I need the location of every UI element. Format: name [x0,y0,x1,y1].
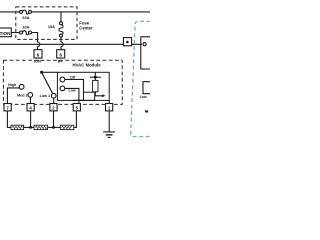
node wiper junction [40,71,43,74]
svg-text:High: High [8,83,17,87]
text fragment at edge [145,110,148,112]
node junction bus/pin4 [29,126,32,129]
wire main feed to relay connector [0,43,124,45]
blower resistor R3 [60,125,74,129]
wire battery feed top [0,11,20,13]
connector pin 6 B+ [57,50,65,58]
wire ignition to fuse F2 [11,32,19,34]
ignition switch box [0,28,11,37]
svg-text:Low: Low [140,95,147,99]
connector pin 5 [73,104,80,111]
fuse box (Fuse Center, dashed) [16,7,77,40]
switch wiper arm [42,73,53,94]
wire pin 2 to bus [53,111,55,128]
wire R3 to pin 5 [74,111,77,128]
arrow relay arm [102,94,105,97]
wire coil to arm arrow [95,92,102,96]
wire Low1 contact to pin 2 [53,98,55,104]
component box B2 (cut at edge) [143,82,151,94]
wire Off contact to motor box [65,79,84,92]
wire junction to relay box [42,71,58,73]
svg-text:Low: Low [69,89,76,93]
svg-text:IGN: IGN [34,60,41,64]
wire pin 7 to resistor bus [7,111,11,128]
motor box [73,92,95,100]
svg-text:Center: Center [79,26,93,31]
svg-text:Med 2: Med 2 [17,94,27,98]
wire pin 1 to ground [108,111,110,132]
wire top feed to right edge [32,11,151,13]
wire relay to pin 1 [108,100,110,103]
connector pin 2 [50,104,57,111]
wire High contact to pin 7 [7,88,19,104]
svg-text:15A: 15A [48,24,55,29]
terminal circle [143,43,146,46]
switch contact High [19,84,24,89]
fuse F2 10A [20,31,32,35]
right module box (blue dashed) [131,21,151,136]
svg-text:HVAC Module: HVAC Module [73,62,102,67]
node junction bus/pin2 [52,126,55,129]
HVAC module box (dashed) [3,60,122,104]
label Fuse Center [79,20,93,30]
svg-text:B+: B+ [58,60,63,64]
blower relay box [57,72,109,100]
component box B1 (cut at edge) [141,37,151,69]
blower resistor R2 [34,125,48,129]
wire bus R1 to R2 [24,126,34,128]
svg-text:10A: 10A [22,24,29,29]
svg-text:IGNITION: IGNITION [0,31,10,36]
svg-text:Off: Off [70,75,76,79]
svg-text:30A: 30A [22,15,29,20]
wire bus R2 to R3 [48,126,61,128]
svg-text:Low 1: Low 1 [40,94,50,98]
wire F3 to B+ pin, with hop over feed wire [61,37,63,50]
relay contact Low [60,86,65,91]
wire connector to right module [132,43,142,45]
ground [103,132,115,138]
relay coil resistor [90,72,101,92]
connector pin 4 [27,104,34,111]
relay contact Off [60,77,65,82]
fuse F1 30A [20,10,32,14]
switch contact Med 2 [28,93,33,98]
wire pin 4 to bus [30,111,32,128]
connector pin 1 [106,104,113,111]
wire F2 to IGN pin, with hop over feed wire [32,33,40,50]
fuse F3 15A (vertical) [59,12,63,37]
switch contact Low 1 [51,93,56,98]
wire Low contact to pin 5 [65,88,79,103]
in-line connector to resistor module [123,38,131,46]
blower resistor R1 [11,125,24,129]
connector pin 6 IGN [34,50,42,58]
connector pin 7 [4,104,11,111]
wire Med contact to pin 4 [29,97,31,103]
